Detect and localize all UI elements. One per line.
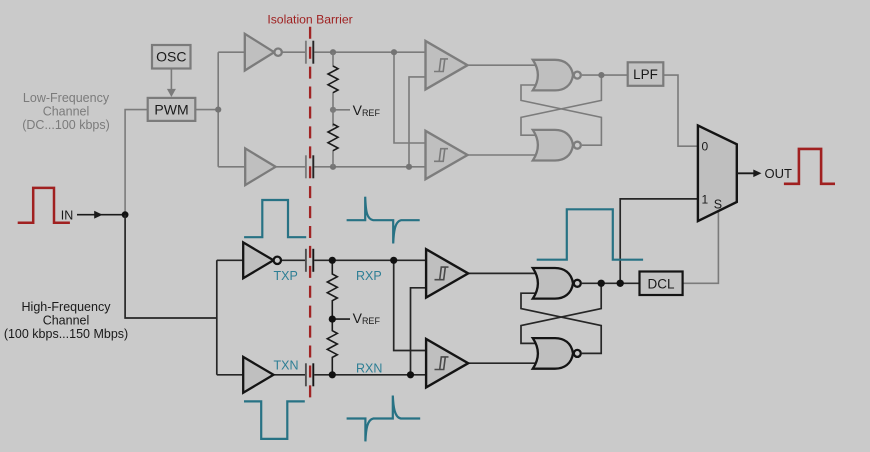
- node: VREF top: [330, 107, 336, 113]
- resistor R1 (top divider upper): [328, 66, 338, 93]
- DCL box U8: [640, 272, 683, 296]
- node: VREF bottom: [329, 316, 336, 323]
- svg-text:VREF: VREF: [353, 102, 381, 118]
- wire schmitt U2 out to NOR G4: [468, 362, 541, 364]
- node: PWM-trunk junction: [215, 107, 221, 113]
- capacitor C1 (top isolation cap): [306, 41, 313, 64]
- buffer A1 (inverting, gray top): [245, 34, 282, 71]
- NOR gate G1 (gray upper): [533, 60, 581, 91]
- NOR gate G3 (black upper): [533, 268, 581, 299]
- capacitor C2 (bottom gray isolation cap): [306, 155, 313, 178]
- wire G1 out to LPF: [582, 74, 628, 76]
- wire IN-trunk up to PWM row: [125, 110, 148, 215]
- wire latch cross D (G4 out to G3 bottom input): [521, 293, 601, 353]
- wire bottom cap to schmitt U4: [314, 166, 425, 168]
- svg-text:RXP: RXP: [356, 269, 382, 283]
- waveform: IN pulse (red): [18, 188, 70, 223]
- wire RXP crossover down: [394, 260, 426, 350]
- wire TXP to cap: [281, 259, 305, 261]
- isolation barrier dashed line: [309, 27, 311, 398]
- capacitor C3 (TXP isolation cap): [306, 249, 313, 272]
- waveform: RXP spikes: [347, 197, 420, 244]
- svg-text:Isolation Barrier: Isolation Barrier: [267, 13, 352, 27]
- capacitor C4 (TXN isolation cap): [306, 363, 313, 386]
- NOR gate G2 (gray lower): [533, 130, 581, 161]
- wire crossover up to schmitt U3: [409, 77, 426, 167]
- wire trunk vertical: [217, 52, 219, 167]
- svg-text:PWM: PWM: [154, 102, 188, 118]
- svg-text:Channel: Channel: [43, 104, 90, 118]
- svg-text:Low-Frequency: Low-Frequency: [23, 91, 110, 105]
- svg-text:VREF: VREF: [353, 310, 381, 326]
- wire latch cross A (G1 out to G2 top input): [521, 75, 601, 135]
- node: RXN crossover: [407, 371, 414, 378]
- label: High-Frequency Channel: [4, 300, 128, 341]
- arrowhead OSC to PWM: [167, 89, 176, 97]
- PWM box U6: [148, 98, 196, 121]
- svg-text:DCL: DCL: [647, 276, 674, 291]
- svg-text:High-Frequency: High-Frequency: [22, 300, 112, 314]
- wire trunk to TXN: [217, 374, 243, 376]
- schmitt buffer U1 (black top): [426, 249, 468, 297]
- wire LPF to mux input 0: [663, 75, 698, 146]
- wire crossover down to schmitt U4: [394, 52, 426, 143]
- wire trunk to top buffer: [218, 51, 245, 53]
- wire RXN crossover up: [411, 288, 427, 375]
- svg-text:S: S: [714, 198, 722, 212]
- node: RXP at resistor: [329, 257, 336, 264]
- NOR gate G4 (black lower): [533, 338, 581, 369]
- svg-text:(100 kbps...150 Mbps): (100 kbps...150 Mbps): [4, 327, 128, 341]
- wire latch cross B (G2 out to G1 bottom input): [521, 85, 601, 145]
- node: G1 output: [598, 72, 604, 78]
- wire G3 out to DCL: [582, 282, 640, 284]
- wire RXN line: [314, 374, 426, 376]
- wire latch output up to mux input 1: [620, 199, 698, 283]
- node: bottom line at resistor: [330, 164, 336, 170]
- schmitt buffer U2 (black bottom): [426, 339, 468, 387]
- node VREF stub bottom: [332, 318, 350, 320]
- svg-text:0: 0: [702, 140, 709, 154]
- waveform: OUT pulse (red): [784, 149, 835, 184]
- node: IN junction: [122, 211, 129, 218]
- wire schmitt U3 out to NOR G1: [468, 64, 542, 66]
- wire RXP line: [314, 259, 426, 261]
- waveform: RXN spikes: [347, 396, 421, 442]
- svg-text:Channel: Channel: [43, 314, 90, 328]
- waveform: TXN pulse (inverted): [244, 401, 305, 439]
- waveform: TXP pulse: [244, 200, 306, 237]
- svg-text:RXN: RXN: [356, 361, 382, 375]
- buffer TXN: [243, 357, 273, 393]
- svg-text:OSC: OSC: [156, 49, 186, 65]
- wire TXN to cap: [274, 374, 306, 376]
- label: Low-Frequency Channel: [22, 91, 110, 132]
- wire bottom buffer to cap: [276, 166, 305, 168]
- wire schmitt U1 out to NOR G3: [468, 272, 541, 274]
- wire latch cross C (G3 out to G4 top input): [521, 283, 601, 343]
- wire OSC to PWM arrow line: [170, 69, 172, 92]
- wire trunk to bottom buffer: [218, 166, 245, 168]
- buffer TXP (inverting): [243, 242, 281, 278]
- arrowhead IN: [94, 211, 102, 219]
- resistor R3 (bottom divider upper): [327, 260, 337, 319]
- node: RXP crossover: [390, 257, 397, 264]
- node: G3 output: [598, 280, 605, 287]
- node: latch out to mux: [617, 280, 624, 287]
- svg-text:OUT: OUT: [765, 166, 793, 181]
- wire IN arrow: [77, 214, 122, 216]
- svg-text:1: 1: [702, 193, 709, 207]
- wire HF trunk vertical: [216, 260, 218, 375]
- wire resistor chain top (gray): [333, 52, 350, 167]
- node: RXN at resistor: [329, 371, 336, 378]
- node: top line at resistor: [330, 49, 336, 55]
- wire top cap to schmitt U3: [314, 51, 425, 53]
- LPF box U7: [628, 62, 664, 86]
- resistor R2 (top divider lower): [328, 124, 338, 151]
- wire HF trunk down and right: [125, 215, 217, 318]
- schmitt buffer U3 (gray top): [426, 41, 468, 89]
- svg-text:IN: IN: [61, 209, 74, 223]
- node: bottom line crossover: [406, 164, 412, 170]
- wire schmitt U4 out to NOR G2: [468, 154, 542, 156]
- wire mux output: [737, 172, 755, 174]
- wire top buffer to cap: [282, 51, 305, 53]
- node: top line crossover: [391, 49, 397, 55]
- resistor R4 (bottom divider lower): [327, 319, 337, 375]
- svg-text:(DC...100 kbps): (DC...100 kbps): [22, 118, 110, 132]
- svg-text:LPF: LPF: [633, 67, 658, 82]
- svg-text:TXP: TXP: [274, 269, 298, 283]
- buffer A2 (gray bottom): [245, 148, 275, 185]
- wire PWM to trunk: [195, 109, 218, 111]
- wire trunk to TXP: [217, 259, 243, 261]
- schmitt buffer U4 (gray bottom): [426, 131, 468, 179]
- mux U9: [698, 126, 737, 222]
- waveform: latch output pulse: [537, 209, 643, 259]
- wire DCL out to mux S: [683, 211, 719, 283]
- svg-text:TXN: TXN: [274, 358, 299, 372]
- arrowhead OUT: [753, 170, 761, 178]
- OSC box U5: [152, 45, 191, 69]
